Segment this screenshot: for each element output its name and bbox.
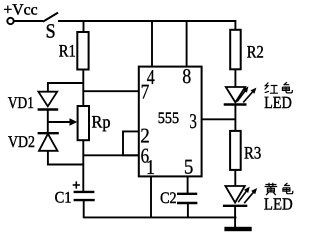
svg-text:3: 3 xyxy=(189,109,197,133)
svg-text:R2: R2 xyxy=(247,41,264,61)
ground xyxy=(224,227,251,231)
svg-text:R1: R1 xyxy=(59,40,76,60)
switch S blade xyxy=(43,13,58,22)
wire C2 to bottom rail xyxy=(187,203,189,217)
wire pin 1 to bottom rail xyxy=(150,176,152,217)
wire C1 to bottom rail xyxy=(83,200,85,218)
svg-text:C2: C2 xyxy=(160,190,177,207)
wire pin 2 to pin 6 bracket xyxy=(123,131,139,155)
wire VD1 to VD2 xyxy=(47,110,49,134)
wire R2 to red LED xyxy=(234,69,236,87)
wire rail to pin 4 xyxy=(151,21,153,67)
svg-text:7: 7 xyxy=(141,79,150,103)
svg-text:1: 1 xyxy=(146,155,155,179)
svg-text:R3: R3 xyxy=(244,143,261,163)
wire bottom rail xyxy=(84,216,237,218)
wire R1 bottom to Rp top xyxy=(82,70,84,107)
LED yellow arrows xyxy=(238,187,257,204)
capacitor C2 xyxy=(177,194,197,203)
label yellow LED (hand-drawn CJK 黄色) xyxy=(265,183,278,195)
svg-text:5: 5 xyxy=(184,155,194,179)
wire from terminal to switch xyxy=(14,20,43,22)
wire junction to pin 6 xyxy=(83,154,139,156)
wire Rp bottom to C1 xyxy=(82,140,84,191)
svg-text:LED: LED xyxy=(264,195,293,214)
LED yellow diode xyxy=(223,186,247,206)
wire pin 5 to C2 xyxy=(187,176,189,193)
diode VD1 xyxy=(38,92,59,110)
wire VD2 to bottom junction xyxy=(48,151,83,165)
svg-text:Rp: Rp xyxy=(92,112,111,132)
IC 555 U1 body xyxy=(139,67,202,177)
wire yellow LED to ground xyxy=(234,205,236,227)
diode VD2 xyxy=(38,133,59,151)
svg-text:555: 555 xyxy=(158,110,179,127)
wire rail to pin 8 xyxy=(186,21,188,67)
capacitor C1 polarity plus xyxy=(73,181,80,188)
potentiometer Rp body xyxy=(78,106,89,140)
svg-text:+Vcc: +Vcc xyxy=(3,1,37,18)
LED red arrows xyxy=(237,86,256,102)
LED red diode xyxy=(224,87,247,105)
svg-text:LED: LED xyxy=(264,93,292,112)
node +Vcc terminal xyxy=(7,18,13,24)
wire red LED to R3 xyxy=(234,105,236,132)
svg-text:VD2: VD2 xyxy=(8,132,35,151)
wire R3 to yellow LED xyxy=(234,170,236,186)
wire to diode branch xyxy=(48,83,83,92)
wire to pin 7 xyxy=(83,90,139,92)
wire pin 3 to LED column xyxy=(202,118,236,120)
svg-text:VD1: VD1 xyxy=(8,93,34,112)
potentiometer Rp wiper arrow xyxy=(48,118,77,126)
svg-text:C1: C1 xyxy=(55,190,72,207)
resistor R2 xyxy=(230,30,241,70)
svg-text:S: S xyxy=(46,20,56,42)
wire rail to R1 xyxy=(83,21,85,33)
wire top rail xyxy=(58,21,235,30)
svg-text:8: 8 xyxy=(182,64,191,88)
resistor R1 xyxy=(77,32,88,70)
label red LED (hand-drawn CJK 红色) xyxy=(265,83,278,94)
resistor R3 xyxy=(230,131,241,170)
capacitor C1 xyxy=(74,192,95,200)
